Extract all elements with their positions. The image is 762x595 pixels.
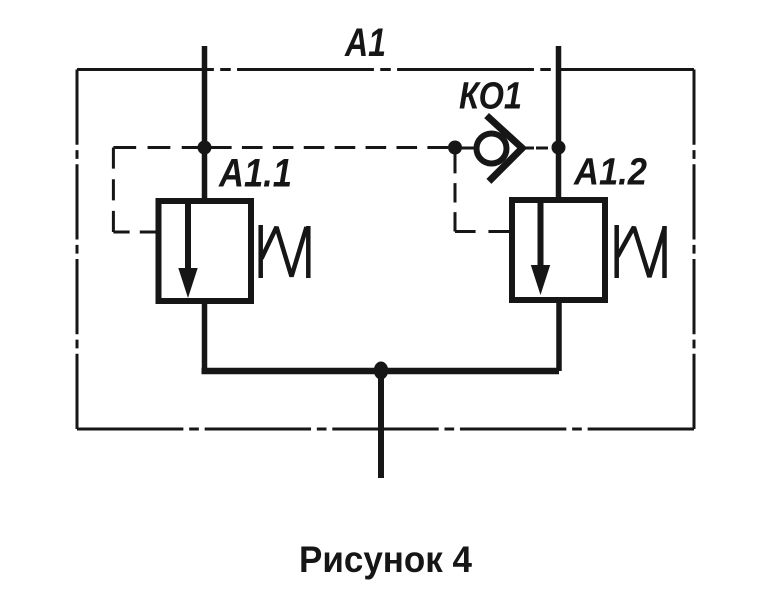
valve A1.2 flow arrow [538,203,544,270]
enclosure A1 dash-dot border [77,70,694,430]
check valve KO1 ball [477,134,507,164]
svg-text:A1.2: A1.2 [573,152,647,194]
valve A1.1 spring [261,225,309,278]
wire: pilot dashed line from left junction to check valve [211,146,448,149]
valve A1.1 box [159,201,252,301]
wire: bottom collector bus [202,368,560,375]
node: junction on right supply line [552,141,566,155]
check valve KO1 leads [461,147,475,150]
svg-text:A1.1: A1.1 [218,152,292,196]
valve A1.2 box [512,200,605,300]
wire: left supply line P1 [202,46,208,201]
wire: left valve outlet leg [202,301,208,371]
svg-text:КО1: КО1 [459,76,522,118]
check valve KO1 seat chevron [487,116,523,182]
valve A1.1 flow arrow [185,204,191,273]
node: junction on left supply line [198,141,212,155]
wire: pilot dashed line left valve (junction to left, down, into box) [113,148,204,233]
wire: pilot dashed line right valve (down from junction, into box) [455,154,509,232]
node: bus junction [374,362,388,380]
wire: right supply line P2 [556,46,562,200]
svg-text:A1: A1 [344,21,386,65]
wire: drain line to tank [378,371,384,478]
node: junction at check valve pilot branch [448,141,462,155]
wire: right valve outlet leg [556,300,562,371]
svg-text:Рисунок 4: Рисунок 4 [299,539,472,580]
valve A1.2 spring [617,225,665,278]
